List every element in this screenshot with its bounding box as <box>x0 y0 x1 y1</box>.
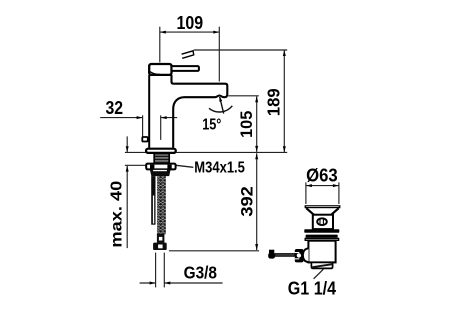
reference line lever top level <box>194 49 287 51</box>
locknut right facet <box>167 165 171 169</box>
drain rim highlight <box>306 206 339 208</box>
arrow 105 bottom <box>255 146 258 152</box>
extension line 32 right <box>160 115 162 140</box>
arrow max40 up <box>126 166 129 172</box>
hose collar <box>150 170 171 177</box>
arrow 109 right <box>213 31 219 34</box>
extension line 109 left (faucet axis) <box>159 27 161 63</box>
extension line d63 right <box>338 182 340 204</box>
dimension line G3/8 left segment <box>140 282 156 284</box>
dimension line G3/8 right segment <box>164 282 222 284</box>
arrow G3/8 left <box>150 282 156 285</box>
arrow G3/8 right <box>164 282 170 285</box>
reference line max40 bottom <box>125 164 146 166</box>
svg-text:105: 105 <box>237 111 256 138</box>
pop-up rod square <box>142 137 148 142</box>
break mark at lever <box>182 51 194 59</box>
faucet base flange <box>146 149 176 153</box>
reference line deck level <box>125 151 287 153</box>
dimension line diameter 63 <box>306 185 339 187</box>
drain lever rod <box>275 254 295 257</box>
reference line spout outlet level <box>228 95 259 97</box>
reference line hose end level <box>169 250 259 252</box>
drain lower body <box>308 241 335 263</box>
svg-text:G3/8: G3/8 <box>184 263 218 283</box>
arrow 15deg up <box>219 96 222 102</box>
locknut left facet <box>150 165 154 169</box>
arrow d63 right <box>333 184 339 187</box>
hose hex fitting <box>157 234 165 243</box>
faucet cap skirt arc <box>150 72 160 75</box>
locknut <box>146 164 175 170</box>
svg-text:392: 392 <box>237 186 256 216</box>
arrow d63 left <box>306 184 312 187</box>
svg-text:15°: 15° <box>202 116 221 133</box>
arrow 392 bottom <box>255 244 258 250</box>
dimension line 105 <box>256 96 258 152</box>
dimension line 32 right segment <box>161 117 178 119</box>
drain flange band 3 <box>305 238 338 240</box>
svg-text:max. 40: max. 40 <box>109 181 126 248</box>
drain tailpiece <box>311 262 332 268</box>
svg-text:Ø63: Ø63 <box>306 165 338 186</box>
arrow 392 top <box>255 153 258 159</box>
extension line G3/8 right <box>163 253 165 288</box>
leader M34x1.5 <box>172 165 194 168</box>
hose left tube <box>151 176 155 225</box>
dimension line 392 <box>256 153 258 250</box>
extension line 32 left <box>142 115 144 137</box>
hose collar highlight <box>153 170 167 171</box>
svg-text:189: 189 <box>263 88 283 116</box>
arrow max40 down <box>126 146 129 152</box>
drain pivot nut slit top <box>295 252 300 253</box>
hose end nut <box>153 243 167 250</box>
drain tailpiece thread shading <box>312 263 332 268</box>
faucet body left edge <box>148 75 150 148</box>
drain upper body <box>313 215 333 229</box>
drain funnel left side <box>306 208 313 214</box>
dimension line max40 upper segment <box>126 136 128 152</box>
dimension line 189 <box>283 50 285 152</box>
faucet neck spout and fillet <box>172 75 228 148</box>
arrow 189 top <box>283 50 286 56</box>
faucet lever <box>172 66 199 71</box>
leader G1 1/4 <box>314 269 324 279</box>
hose end nut window <box>158 245 163 249</box>
dimension line 109 <box>160 31 220 33</box>
faucet cap <box>149 64 171 75</box>
svg-text:M34x1.5: M34x1.5 <box>194 160 245 177</box>
swivel axis line 15deg <box>220 97 224 114</box>
drain funnel bottom line <box>313 214 333 216</box>
drain rim <box>305 205 341 208</box>
drain flange band 1 <box>304 229 339 233</box>
swivel arc 15deg <box>209 106 232 112</box>
dimension line 32 left segment <box>100 117 142 119</box>
svg-text:G1 1/4: G1 1/4 <box>288 278 337 299</box>
hose left tube highlight <box>153 196 154 224</box>
drain knob oval <box>317 218 327 225</box>
drain knob oval facets <box>320 219 323 225</box>
extension line 109 right (aerator axis) <box>218 27 220 82</box>
extension line G3/8 left <box>155 253 157 288</box>
drain rod knob top <box>269 250 274 253</box>
drain funnel right side <box>331 208 338 214</box>
threaded shank M34 <box>154 153 169 163</box>
drain flange band 2 <box>306 235 338 238</box>
arrow 32 left <box>137 116 143 119</box>
hose hex fitting window <box>159 237 163 241</box>
extension line d63 left <box>305 182 307 204</box>
drain pivot ball <box>297 253 301 257</box>
arrow 105 top <box>255 96 258 102</box>
svg-text:32: 32 <box>106 98 124 118</box>
hose braid <box>157 176 166 234</box>
drain pivot nut <box>295 249 304 262</box>
drain rod knob <box>268 253 275 259</box>
arrow 32 right <box>161 116 167 119</box>
arrow 109 left <box>160 31 166 34</box>
shank threads <box>155 155 169 163</box>
drain left cap <box>303 248 309 262</box>
drain pivot nut slit bottom <box>295 258 300 259</box>
svg-text:109: 109 <box>177 13 204 33</box>
arrow 189 bottom <box>283 146 286 152</box>
dimension line max40 lower segment <box>126 166 128 249</box>
